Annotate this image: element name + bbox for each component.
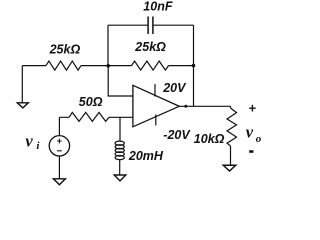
wire 10k lead bottom xyxy=(230,146,232,165)
wire inductor lead top xyxy=(119,117,121,141)
wire top loop right vertical xyxy=(193,25,195,106)
pin V+ xyxy=(154,84,156,97)
junction dot output xyxy=(184,105,187,108)
pin V- xyxy=(155,115,157,126)
resistor R4 50 zigzag xyxy=(69,112,109,121)
node A junction dot xyxy=(106,64,110,68)
svg-text:10nF: 10nF xyxy=(143,0,173,13)
svg-text:+: + xyxy=(249,101,257,116)
wire noninverting input run xyxy=(59,116,132,118)
node B junction dot xyxy=(192,64,196,68)
wire output run xyxy=(179,105,230,107)
svg-text:v: v xyxy=(25,131,33,150)
wire inductor lead bottom xyxy=(119,160,121,175)
ground G1 xyxy=(17,103,28,108)
capacitor C1 10nF plates xyxy=(148,17,153,35)
svg-text:25kΩ: 25kΩ xyxy=(134,40,166,54)
ground G3 xyxy=(114,175,126,181)
resistor R1 25k left zigzag xyxy=(46,61,81,70)
wire feedback top loop horizontal xyxy=(108,24,194,26)
wire left ground drop xyxy=(21,66,23,103)
svg-text:50Ω: 50Ω xyxy=(79,95,103,109)
svg-text:20mH: 20mH xyxy=(128,149,164,163)
svg-text:10kΩ: 10kΩ xyxy=(194,132,225,146)
wire between R1 and node A xyxy=(81,65,132,67)
wire top loop left vertical xyxy=(107,25,109,65)
svg-text:20V: 20V xyxy=(162,81,187,95)
ground G4 xyxy=(223,165,235,171)
wire R2 to output vertical xyxy=(169,65,194,67)
op-amp U1 xyxy=(133,85,179,127)
resistor R3 10k vertical zigzag xyxy=(227,108,237,146)
wire inverting input xyxy=(108,66,133,96)
source plus sign xyxy=(57,139,62,144)
wire source top lead xyxy=(58,117,60,135)
source minus sign xyxy=(57,150,62,152)
wire left input run xyxy=(22,65,46,67)
source V1 vi circle xyxy=(49,136,69,156)
svg-text:-20V: -20V xyxy=(163,128,191,142)
wire source bottom lead xyxy=(58,156,60,179)
wire 10k lead top xyxy=(230,106,232,108)
svg-text:i: i xyxy=(36,140,40,152)
label - output xyxy=(249,150,253,153)
inductor L1 20mH coil xyxy=(115,141,124,160)
svg-text:v: v xyxy=(246,123,254,142)
svg-text:o: o xyxy=(256,133,262,145)
svg-text:25kΩ: 25kΩ xyxy=(49,43,81,57)
resistor R2 25k feedback zigzag xyxy=(132,61,169,70)
ground G2 xyxy=(53,179,65,185)
